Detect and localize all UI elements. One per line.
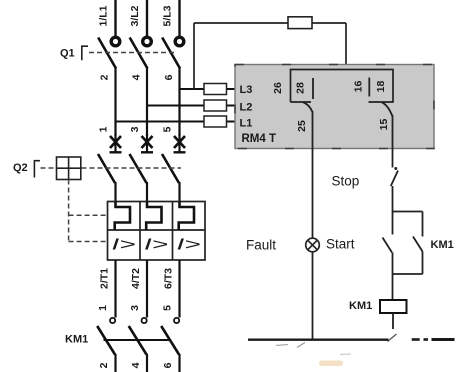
svg-text:I>: I> — [177, 237, 201, 254]
wire tap L3 — [180, 88, 237, 90]
wire feed down to RM4 — [345, 23, 347, 70]
svg-text:4: 4 — [131, 74, 143, 80]
contactor KM1 pole2 contact circle — [142, 318, 147, 323]
wire 15 down — [392, 115, 394, 168]
svg-text:5: 5 — [162, 305, 174, 311]
svg-text:3/L2: 3/L2 — [129, 5, 141, 26]
svg-text:1/L1: 1/L1 — [98, 5, 110, 26]
wire branch right down — [422, 212, 424, 237]
wire pole3 mid — [178, 68, 180, 136]
Q1 handle bracket — [82, 46, 88, 60]
breaker Q1 pole 2 terminal — [143, 37, 152, 46]
wire coil down — [392, 313, 394, 329]
wire pole3 bottom — [178, 354, 180, 372]
svg-text:Q2: Q2 — [13, 162, 28, 174]
wire lamp down — [312, 252, 314, 341]
relay RM4 T body — [235, 65, 434, 149]
svg-text:5/L3: 5/L3 — [162, 5, 174, 26]
svg-text:I>: I> — [112, 237, 136, 254]
contactor Q2 blade pole1 — [98, 154, 115, 183]
wire supply L1 — [114, 0, 116, 38]
wire pole3 to overload — [178, 182, 180, 202]
wire tap L2 — [147, 105, 236, 107]
trip link branch lower dashed — [69, 241, 108, 243]
contactor KM1 pole3 contact circle — [174, 318, 179, 323]
breaker Q1 pole 1 blade — [98, 38, 116, 69]
svg-text:6: 6 — [163, 74, 175, 80]
wire pole3 below overload — [178, 260, 180, 318]
breaker Q1 pole 2 blade — [130, 38, 148, 69]
KM1 NO contact right blade — [413, 237, 423, 252]
svg-text:3: 3 — [129, 126, 141, 132]
Q2 trip link vertical dashed — [68, 180, 70, 242]
breaker Q1 pole 1 terminal — [111, 37, 120, 46]
artifact gray dash — [276, 345, 288, 346]
svg-text:3: 3 — [129, 305, 141, 311]
wire pole2 below overload — [146, 260, 148, 318]
filter F-L3 — [204, 84, 227, 95]
svg-text:2: 2 — [99, 74, 111, 80]
Q2 actuator box — [57, 157, 81, 180]
trip link branch upper dashed — [69, 214, 108, 216]
Q2 handle bracket — [34, 161, 40, 178]
wire top feed vertical from L3 — [193, 23, 195, 89]
overload relay F1 box — [108, 202, 206, 261]
filter F-L2 — [204, 100, 227, 111]
bottom rail dash 2 — [424, 338, 429, 341]
contactor KM1 pole1 blade — [97, 326, 115, 355]
relay RM4 T border dashes — [235, 65, 434, 149]
svg-text:16: 16 — [353, 81, 365, 93]
svg-text:5: 5 — [162, 126, 174, 132]
svg-text:L2: L2 — [240, 102, 253, 114]
wire pole2 bottom — [146, 354, 148, 372]
contactor KM1 pole1 contact circle — [110, 318, 115, 323]
svg-text:1: 1 — [97, 305, 109, 311]
svg-text:RM4 T: RM4 T — [242, 133, 277, 145]
heater element pole2 — [146, 202, 161, 231]
contactor Q2 blade pole3 — [162, 154, 179, 183]
svg-text:2: 2 — [98, 362, 110, 368]
Q2 linkage dashed to blades — [82, 167, 182, 169]
wire pole2 to overload — [146, 182, 148, 202]
svg-text:26: 26 — [272, 82, 284, 94]
bottom rail dash 1 — [412, 338, 420, 341]
contactor KM1 pole3 blade — [161, 326, 179, 355]
wire pole1 to overload — [114, 182, 116, 202]
wire 25 down — [312, 111, 314, 239]
KM1 NO contact left blade — [383, 238, 393, 253]
wire branch top — [393, 211, 423, 213]
svg-text:6/T3: 6/T3 — [162, 268, 174, 289]
wire pole1 below overload — [114, 260, 116, 318]
svg-text:KM1: KM1 — [349, 300, 372, 312]
contact 16 fixed bar — [368, 78, 370, 97]
svg-text:KM1: KM1 — [65, 334, 88, 346]
wire branch bottom rejoin — [393, 273, 423, 275]
wire pole2 mid — [146, 68, 148, 136]
svg-text:15: 15 — [378, 119, 390, 131]
wire coil tail diagonal — [388, 334, 397, 342]
wire below left contact — [392, 253, 394, 301]
svg-text:18: 18 — [375, 81, 387, 93]
svg-text:2/T1: 2/T1 — [98, 268, 110, 289]
bottom rail dash 3 — [432, 338, 455, 341]
contact 28 fixed bar — [312, 78, 314, 99]
breaker contact X pole1 — [110, 134, 122, 153]
wire stop to branch — [392, 186, 394, 235]
wire below right contact — [422, 252, 424, 275]
artifact gray tick — [297, 343, 305, 348]
breaker contact X pole2 — [141, 134, 153, 153]
svg-text:Stop: Stop — [332, 173, 360, 188]
fuse F1 — [288, 17, 312, 29]
wire pole1 mid — [114, 68, 116, 136]
bottom rail — [248, 339, 389, 341]
svg-text:L1: L1 — [240, 117, 253, 129]
relay contact 25 blade — [303, 102, 313, 112]
wire top feed horizontal — [194, 22, 346, 24]
svg-text:Fault: Fault — [246, 237, 276, 252]
heater element pole3 — [179, 202, 194, 231]
svg-text:4: 4 — [130, 362, 142, 368]
svg-text:6: 6 — [162, 362, 174, 368]
breaker Q1 pole 3 terminal — [175, 37, 184, 46]
breaker Q1 pole 3 blade — [162, 38, 180, 69]
breaker contact X pole3 — [174, 134, 186, 153]
relay contact 15 blade — [382, 103, 393, 117]
svg-text:L3: L3 — [240, 84, 253, 96]
KM1 linkage bar — [104, 339, 171, 341]
wire supply L3 — [178, 0, 180, 38]
wire pole1 bottom — [114, 354, 116, 372]
artifact gray dash 2 — [340, 353, 351, 356]
artifact orange smudge — [319, 361, 343, 367]
contactor Q2 blade pole2 — [130, 154, 147, 183]
svg-text:28: 28 — [295, 82, 307, 94]
svg-text:25: 25 — [296, 120, 308, 132]
lamp fault indicator — [306, 238, 320, 252]
svg-text:1: 1 — [98, 126, 110, 132]
relay contact frame — [291, 70, 394, 103]
heater element pole1 — [115, 202, 130, 231]
filter F-L1 — [204, 116, 227, 127]
svg-text:KM1: KM1 — [431, 239, 454, 251]
svg-text:4/T2: 4/T2 — [130, 268, 142, 289]
coil KM1 — [380, 300, 407, 313]
Q2 linkage dash to box — [41, 167, 57, 169]
svg-text:Q1: Q1 — [60, 48, 75, 60]
wire tap L1 — [116, 121, 237, 123]
contactor KM1 pole2 blade — [129, 326, 147, 355]
svg-text:I>: I> — [144, 237, 168, 254]
wire supply L2 — [146, 0, 148, 38]
Q1 linkage dashed — [89, 52, 176, 54]
svg-text:Start: Start — [326, 236, 355, 251]
Stop pushbutton contact — [394, 167, 397, 170]
